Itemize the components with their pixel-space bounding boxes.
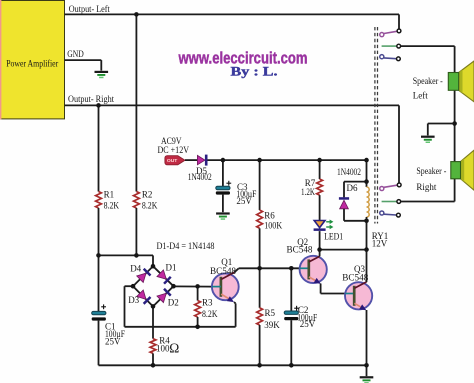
svg-text:100K: 100K	[264, 221, 282, 231]
svg-text:R2: R2	[142, 190, 153, 200]
svg-text:Left: Left	[413, 90, 428, 100]
svg-text:Speaker -: Speaker -	[416, 166, 446, 176]
svg-text:Output- Left: Output- Left	[69, 4, 110, 14]
svg-text:1N4002: 1N4002	[188, 172, 212, 182]
svg-text:12V: 12V	[372, 238, 388, 248]
svg-text:BC548: BC548	[342, 272, 368, 282]
svg-text:25V: 25V	[236, 196, 252, 206]
svg-text:25V: 25V	[105, 337, 121, 347]
svg-text:D6: D6	[347, 183, 358, 193]
svg-text:R1: R1	[104, 190, 115, 200]
svg-text:D3: D3	[128, 295, 139, 305]
svg-text:DC +12V: DC +12V	[158, 145, 190, 155]
svg-text:By : L.: By : L.	[231, 64, 278, 78]
svg-text:Ω: Ω	[169, 341, 179, 356]
svg-text:D1-D4 = 1N4148: D1-D4 = 1N4148	[157, 241, 215, 251]
svg-text:GND: GND	[67, 49, 84, 59]
svg-text:8.2K: 8.2K	[202, 309, 218, 319]
svg-text:D4: D4	[130, 263, 141, 273]
svg-text:39K: 39K	[264, 320, 280, 330]
svg-text:D2: D2	[168, 297, 179, 307]
svg-text:Right: Right	[416, 182, 437, 192]
svg-text:1N4002: 1N4002	[337, 167, 361, 177]
svg-text:R3: R3	[202, 298, 213, 308]
svg-text:25V: 25V	[300, 319, 316, 329]
svg-text:R5: R5	[265, 308, 276, 318]
svg-text:8.2K: 8.2K	[104, 200, 120, 210]
svg-text:Power Amplifier: Power Amplifier	[6, 59, 58, 69]
svg-text:OUT: OUT	[167, 158, 178, 164]
svg-text:100: 100	[156, 344, 170, 354]
svg-text:LED1: LED1	[324, 232, 343, 242]
svg-text:1.2K: 1.2K	[301, 187, 315, 197]
svg-text:Speaker -: Speaker -	[413, 76, 443, 86]
svg-text:BC548: BC548	[210, 266, 236, 276]
svg-text:R6: R6	[264, 210, 275, 220]
svg-text:Output- Right: Output- Right	[68, 94, 114, 104]
svg-text:8.2K: 8.2K	[142, 200, 158, 210]
svg-text:D1: D1	[166, 262, 177, 272]
svg-text:BC548: BC548	[287, 244, 313, 254]
